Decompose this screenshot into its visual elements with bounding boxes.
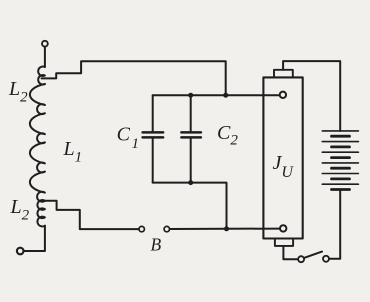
wire relay bottom to switch xyxy=(283,246,298,259)
terminal relay bottom xyxy=(280,225,286,231)
switch B right contact xyxy=(164,226,169,231)
wire switch B to relay xyxy=(170,228,280,230)
svg-text:B: B xyxy=(151,235,162,255)
terminal relay top xyxy=(280,92,286,98)
node junction top C2 xyxy=(188,93,193,98)
terminal T1 top-left xyxy=(42,41,48,47)
svg-text:JU: JU xyxy=(273,152,295,181)
wire battery bottom to switch xyxy=(329,190,340,259)
svg-text:L2: L2 xyxy=(10,196,30,224)
switch B left contact xyxy=(139,226,144,231)
terminal T2 bottom-left xyxy=(17,248,24,255)
wire tap top staircase xyxy=(42,61,226,95)
relay bottom cap xyxy=(275,239,293,246)
node junction bottom C2 xyxy=(188,180,193,185)
svg-text:C1: C1 xyxy=(117,124,139,152)
wire bottom rail xyxy=(153,183,227,229)
wire xyxy=(44,47,46,67)
inductor L2 top section xyxy=(38,67,45,85)
capacitor C2 xyxy=(181,95,201,182)
wire relay top to battery xyxy=(283,61,340,131)
svg-text:C2: C2 xyxy=(217,122,238,149)
switch S right contact xyxy=(323,256,329,262)
capacitor C1 xyxy=(143,95,164,182)
relay top cap xyxy=(274,70,293,78)
wire tap bottom staircase xyxy=(45,201,139,229)
node junction top right xyxy=(223,93,228,98)
switch S left contact xyxy=(298,256,304,262)
battery GB xyxy=(322,131,358,190)
relay coil box J_U xyxy=(263,77,302,238)
wire top rail xyxy=(153,94,280,96)
inductor L1 middle section xyxy=(30,84,45,202)
inductor L2 bottom section xyxy=(37,200,45,226)
switch S blade xyxy=(304,252,322,258)
svg-text:L1: L1 xyxy=(63,138,83,166)
svg-text:L2: L2 xyxy=(8,78,28,106)
node junction bottom wire xyxy=(224,226,229,231)
wire coil bottom lead xyxy=(23,226,45,251)
